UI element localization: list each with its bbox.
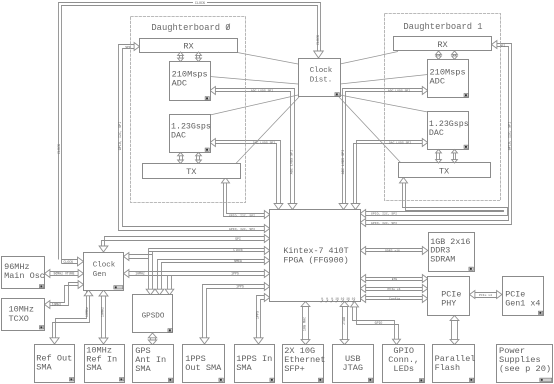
svg-text:Daughterboard 0: Daughterboard 0 [151, 23, 230, 33]
svg-text:GPIO: GPIO [375, 321, 383, 325]
svg-text:16: 16 [341, 296, 345, 300]
svg-text:TCXO: TCXO [9, 314, 29, 324]
svg-text:TX: TX [186, 167, 196, 177]
svg-text:Out SMA: Out SMA [185, 363, 222, 373]
svg-text:JTAG: JTAG [343, 317, 347, 325]
block 10MHz Ref In SMA [85, 345, 125, 383]
svg-text:8: 8 [321, 296, 323, 300]
block 1.23Gsps DAC (db1) [428, 112, 469, 150]
arrow RX0-ADC0 a [179, 55, 181, 58]
block 210Msps ADC (db1) [428, 60, 469, 98]
svg-text:PCIe x4: PCIe x4 [479, 293, 492, 297]
svg-text:Daughterboard 1: Daughterboard 1 [403, 22, 482, 32]
svg-text:SMA: SMA [86, 363, 102, 373]
wire clock bus from Clock Gen up across top to Clock Dist [59, 3, 321, 260]
svg-text:FPGA (FFG900): FPGA (FFG900) [283, 255, 348, 265]
svg-text:Dist.: Dist. [310, 76, 333, 84]
block TX (db0) [143, 164, 241, 179]
svg-text:Clock: Clock [233, 248, 243, 252]
daughterboard 0 outline [131, 17, 246, 203]
svg-text:SMA: SMA [236, 363, 252, 373]
wire PCIe PHY to Parallel Flash [451, 321, 453, 340]
svg-text:8: 8 [331, 296, 333, 300]
svg-text:Clock: Clock [93, 261, 116, 269]
wire DDR3 bus [366, 248, 423, 250]
block 1PPS In SMA [235, 345, 275, 383]
svg-text:1PPS: 1PPS [236, 284, 244, 288]
fpga pin width ticks [321, 300, 323, 303]
svg-text:GPIO, I2C, SPI: GPIO, I2C, SPI [508, 122, 512, 151]
svg-text:(see p 20): (see p 20) [499, 364, 551, 374]
block TX (db1) [399, 163, 491, 178]
wire TX0 riser to FPGA row A [224, 182, 266, 217]
svg-text:10MHz: 10MHz [135, 272, 145, 276]
svg-text:ADC LVDS SPI: ADC LVDS SPI [342, 150, 346, 174]
wire clock to ADC1 [340, 75, 428, 85]
block USB JTAG [333, 345, 374, 383]
wire clock to ADC0 [210, 77, 298, 85]
wire JTAG riser FPGA to USB [342, 307, 344, 340]
wire PCIe PHY to PCIe Gen1 x4 [475, 292, 497, 294]
block Clock Dist U1 [299, 59, 341, 97]
block Kintex-7 410T FPGA [270, 210, 361, 302]
svg-text:Gen1 x4: Gen1 x4 [505, 299, 540, 309]
wire 10MHz from TCXO to Clock Gen [50, 286, 79, 303]
block 1GB 2x16 DDR3 SDRAM [429, 233, 475, 272]
svg-text:10MHz: 10MHz [86, 307, 90, 317]
wire SPI bus FPGA to Clock Gen top [102, 241, 266, 248]
svg-text:SMA: SMA [135, 364, 151, 374]
block PCIe PHY [428, 277, 470, 316]
svg-text:RX: RX [437, 40, 447, 50]
svg-text:DDR3 x16: DDR3 x16 [385, 248, 400, 252]
svg-text:CLOCK: CLOCK [64, 260, 74, 264]
wire TX1 riser wrap to FPGA row1 [365, 182, 508, 216]
block GPS Ant In SMA [133, 345, 174, 383]
block 210Msps ADC (db0) [170, 62, 211, 101]
block 1PPS Out SMA [183, 345, 225, 383]
arrow DAC1-TX1 b [453, 153, 455, 160]
wire PCIe x4 between FPGA and PCIe PHY [366, 287, 423, 289]
svg-text:10MHz: 10MHz [9, 305, 35, 315]
block 1.23Gsps DAC (db0) [170, 115, 211, 153]
svg-text:8: 8 [326, 296, 328, 300]
wire 96MHz VTUNE between Main Osc and Clock Gen [50, 271, 78, 273]
wire clock to TX1 [339, 97, 401, 163]
svg-text:GPIO, I2C, SPI: GPIO, I2C, SPI [229, 227, 255, 231]
svg-text:GPIO, I2C, SPI: GPIO, I2C, SPI [371, 221, 397, 225]
block 2X 10G Ethernet SFP+ [283, 345, 324, 383]
svg-text:10MHz: 10MHz [52, 302, 62, 306]
svg-text:ETH: ETH [392, 277, 398, 281]
svg-text:1.23Gsps: 1.23Gsps [171, 123, 211, 132]
svg-text:96MHz VTUNE: 96MHz VTUNE [53, 272, 74, 276]
svg-text:Clock: Clock [310, 67, 333, 75]
arrow RX0-ADC0 b [196, 55, 198, 58]
wire ADC1 LVDS bus to FPGA [343, 89, 423, 205]
svg-text:SDRAM: SDRAM [430, 254, 455, 264]
svg-text:ADC LVDS SPI: ADC LVDS SPI [290, 150, 294, 174]
svg-text:Main Osc: Main Osc [4, 271, 45, 281]
wire Ref Out path from Clock Gen bottom [56, 291, 87, 340]
svg-text:CLOCK: CLOCK [195, 2, 206, 6]
svg-text:TX: TX [439, 167, 449, 177]
svg-text:GPIO, I2C, SPI: GPIO, I2C, SPI [371, 212, 397, 216]
block Parallel Flash [433, 345, 475, 383]
svg-text:10MHz: 10MHz [102, 307, 106, 317]
wire clock to TX0 [236, 97, 299, 163]
wire DAC1 LVDS bus to FPGA [357, 141, 423, 205]
block 96MHz Main Osc [2, 257, 45, 289]
arrow RX1-ADC1 a [436, 54, 438, 56]
svg-text:RX: RX [183, 42, 193, 52]
wire DAC0 LVDS bus to FPGA [215, 141, 281, 205]
svg-text:Config: Config [389, 296, 400, 300]
wire ADC0 LVDS bus to FPGA [215, 89, 295, 205]
wire DB0 SPI bus: RX arrow and down left side to FPGA [119, 45, 266, 231]
block PCIe Gen1 x4 [503, 277, 544, 316]
svg-text:PCIe x4: PCIe x4 [388, 287, 401, 291]
svg-text:ADC: ADC [172, 79, 187, 89]
svg-text:16: 16 [346, 296, 350, 300]
svg-text:DAC LVDS SPI: DAC LVDS SPI [389, 140, 411, 144]
wire ETH between FPGA and PCIe PHY [366, 277, 423, 279]
svg-text:DAC: DAC [429, 129, 444, 138]
svg-text:16: 16 [335, 296, 339, 300]
wire DB1 SPI bus: RX arrow and down right side to FPGA row2 [365, 44, 512, 225]
wire clock to RX0 [238, 53, 299, 65]
wire Clock row FPGA / Clock Gen / GPSDO [149, 248, 266, 250]
svg-text:ADC: ADC [430, 77, 445, 87]
svg-text:GPIO, I2C, SPI: GPIO, I2C, SPI [119, 122, 123, 151]
block RX (db0) [140, 39, 238, 53]
svg-text:JTAG: JTAG [342, 363, 363, 373]
wire GPIO path FPGA to GPIO connector [353, 307, 395, 340]
svg-text:GPSDO: GPSDO [142, 313, 165, 321]
svg-text:1PPS: 1PPS [257, 311, 261, 319]
svg-text:SPI: SPI [235, 237, 241, 241]
svg-text:1.23Gsps: 1.23Gsps [429, 120, 469, 129]
wire clock to DAC0 [210, 95, 298, 115]
svg-text:SFP+: SFP+ [284, 364, 305, 374]
svg-text:CLOCK: CLOCK [317, 34, 321, 45]
wire clock to RX1 [340, 52, 398, 65]
label CLOCK (top) [193, 1, 207, 5]
arrow DAC1-TX1 a [436, 153, 438, 160]
block GPSDO [133, 295, 173, 333]
block Clock Gen U10 [84, 253, 124, 291]
wire PPS row FPGA to 1PPS Out SMA [203, 285, 266, 340]
svg-text:LEDs: LEDs [393, 364, 414, 374]
svg-text:DAC: DAC [171, 132, 186, 141]
svg-text:1PPS: 1PPS [231, 272, 239, 276]
block 10MHz TCXO [2, 299, 45, 331]
wire Config between FPGA and PCIe PHY [366, 296, 423, 298]
svg-text:16: 16 [352, 296, 356, 300]
wire GPSDO to GPS Ant In [150, 338, 152, 340]
svg-text:Flash: Flash [435, 363, 461, 373]
svg-text:Gen: Gen [93, 271, 107, 279]
svg-text:ADC LVDS SPI: ADC LVDS SPI [388, 88, 410, 92]
svg-text:10G MAC: 10G MAC [304, 317, 308, 331]
wire 10MHz row Clock Gen to FPGA with tee to GPSDO [128, 271, 265, 273]
wire clock to DAC1 [340, 95, 428, 112]
daughterboard 1 outline [385, 14, 501, 201]
wire 1PPS In riser to FPGA row H [257, 296, 266, 340]
arrow RX1-ADC1 b [453, 54, 455, 56]
wire SFP riser FPGA to ethernet [302, 307, 304, 340]
wire 10MHz Ref In to Clock Gen [101, 296, 103, 338]
svg-text:GPIO, I2C, SPI: GPIO, I2C, SPI [229, 213, 255, 217]
svg-text:CLOCK: CLOCK [58, 143, 62, 154]
block Ref Out SMA [35, 345, 75, 383]
block GPIO Conn LEDs [383, 345, 425, 383]
arrow DAC0-TX0 a [179, 156, 181, 160]
block Power Supplies [497, 345, 553, 383]
svg-text:SMA: SMA [36, 363, 52, 373]
svg-text:SPI: SPI [125, 45, 131, 49]
wire NMEA row FPGA to GPSDO [158, 260, 266, 291]
block RX (db1) [394, 37, 492, 51]
svg-text:ADC LVDS SPI: ADC LVDS SPI [251, 88, 273, 92]
svg-text:NMEA: NMEA [234, 259, 242, 263]
svg-text:PHY: PHY [441, 299, 456, 309]
arrow DAC0-TX0 b [196, 156, 198, 160]
